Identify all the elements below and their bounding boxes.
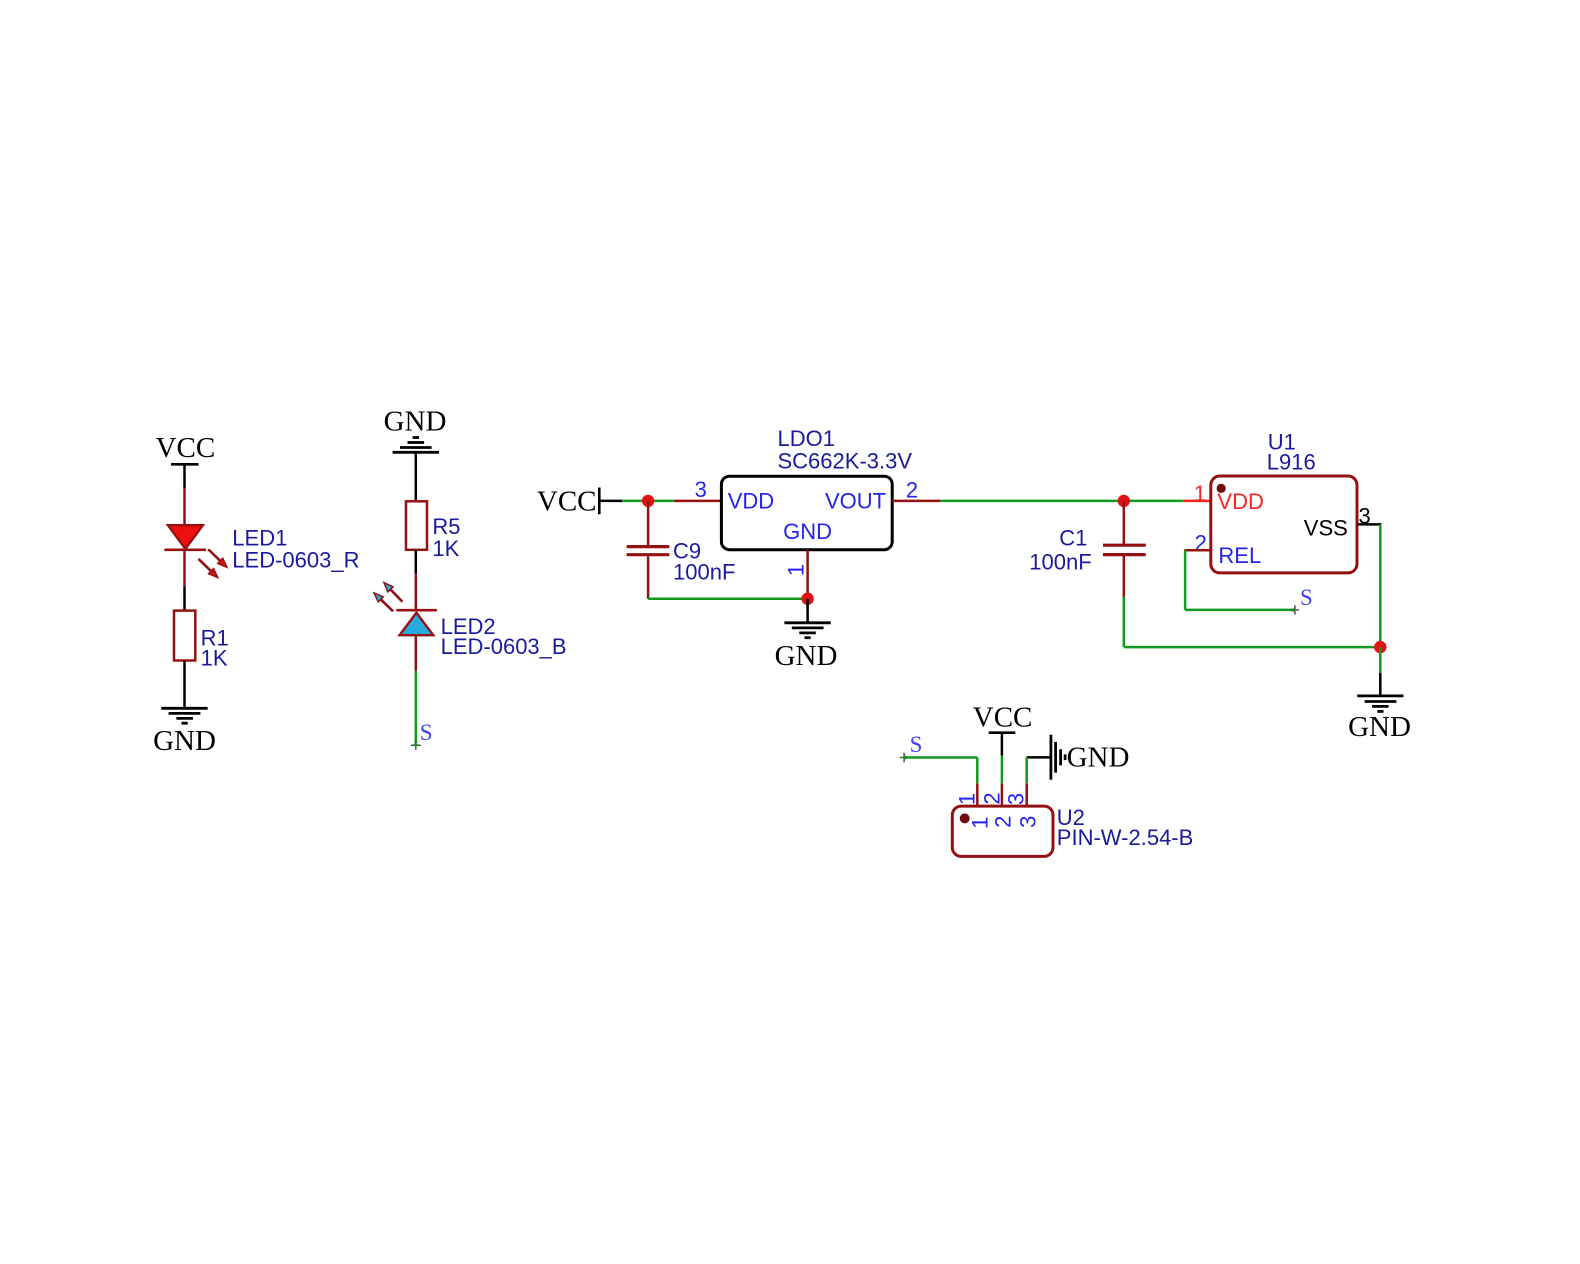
LED LED1 [164,525,229,580]
resistor R5 [406,501,427,550]
label C9 100nF [673,538,735,584]
ground GND (top of LED2 branch, inverted) [384,405,447,452]
svg-text:PIN-W-2.54-B: PIN-W-2.54-B [1057,825,1194,850]
svg-text:1K: 1K [432,536,459,561]
junction [801,593,813,605]
svg-text:2: 2 [991,816,1016,828]
svg-text:1: 1 [1194,481,1206,506]
capacitor C1 [1103,501,1146,597]
svg-text:2: 2 [1195,530,1207,555]
svg-text:GND: GND [153,725,216,757]
svg-text:GND: GND [1067,741,1130,773]
label U2 PIN-W-2.54-B [1057,805,1194,850]
svg-text:SC662K-3.3V: SC662K-3.3V [778,448,913,473]
svg-text:1: 1 [955,793,980,805]
wire [1379,673,1382,696]
net flag S (U1 REL) [1290,585,1312,615]
svg-text:1: 1 [784,564,809,576]
LED LED2 [372,580,437,635]
wire VCC to U2 pin 2 [1001,756,1004,806]
svg-text:REL: REL [1218,543,1261,568]
ground GND (LDO) [775,623,838,672]
svg-text:VCC: VCC [537,486,597,518]
wire [415,550,418,573]
connector U2 PIN-W-2.54-B [952,806,1053,856]
resistor R1 [174,611,195,661]
svg-text:S: S [1300,585,1313,610]
wire [648,597,808,600]
power flag VCC (U2) [973,701,1033,755]
wire [1124,646,1381,649]
label LDO1 SC662K-3.3V [778,426,913,473]
svg-text:L916: L916 [1267,449,1316,474]
svg-text:GND: GND [775,640,838,672]
wire net S [415,671,418,743]
svg-text:VDD: VDD [728,488,774,513]
ground GND (U2, rotated) [1027,735,1130,780]
svg-text:100nF: 100nF [673,560,735,585]
ground GND (U1) [1348,696,1411,743]
svg-text:LED-0603_B: LED-0603_B [441,634,567,659]
power flag VCC (LED1 branch) [156,432,216,488]
svg-text:VCC: VCC [156,432,216,464]
svg-text:VCC: VCC [973,701,1033,733]
wire [415,573,418,610]
svg-text:GND: GND [384,405,447,437]
wire VSS pin 3 [1357,524,1382,647]
wire net S to U2 pin 1 [905,758,978,807]
svg-text:S: S [910,732,923,757]
IC U1 L916 [1211,476,1357,573]
svg-text:1: 1 [967,817,992,829]
wire [183,550,186,587]
IC LDO1 SC662K-3.3V [721,476,892,550]
wire (U1 pin1 stub) [1183,500,1211,503]
wire [892,500,940,503]
label R5 1K [432,514,460,561]
net flag S (U2) [900,732,923,763]
svg-text:3: 3 [1015,816,1040,828]
svg-text:100nF: 100nF [1029,549,1091,574]
wire GND to U2 pin 3 [1025,757,1028,806]
svg-text:LED-0603_R: LED-0603_R [232,547,359,572]
pin wire LDO GND pin 1 [806,550,809,599]
label LED1 LED-0603_R [232,525,359,572]
svg-text:1K: 1K [201,646,228,671]
svg-text:VSS: VSS [1304,516,1348,541]
capacitor C9 [627,501,670,599]
wire [806,599,809,623]
svg-text:VOUT: VOUT [825,488,886,513]
svg-text:2: 2 [906,477,918,502]
junction [1118,495,1130,507]
junction [1374,641,1386,653]
label LED2 LED-0603_B [441,614,567,659]
label U1 L916 [1267,429,1316,474]
wire REL pin 2 [1184,550,1292,610]
svg-text:3: 3 [695,477,707,502]
wire [415,452,418,501]
wire [674,500,723,503]
power flag VCC (LDO input) [537,486,622,518]
svg-text:3: 3 [1004,793,1029,805]
ground GND (LED1 branch) [153,708,216,757]
wire [1123,597,1126,647]
svg-text:C1: C1 [1059,525,1087,550]
svg-text:GND: GND [783,519,832,544]
junction [642,495,654,507]
svg-text:S: S [420,720,433,745]
wire [1379,647,1382,673]
label C1 100nF [1029,525,1091,574]
wire [183,587,186,611]
wire [940,500,1183,503]
wire [415,635,418,671]
label R1 1K [201,625,229,670]
wire [622,500,674,503]
svg-text:VDD: VDD [1217,489,1263,514]
svg-text:GND: GND [1348,711,1411,743]
wire [183,661,186,708]
wire [183,488,186,526]
net flag S (LED2) [411,720,433,750]
svg-text:2: 2 [979,792,1004,804]
